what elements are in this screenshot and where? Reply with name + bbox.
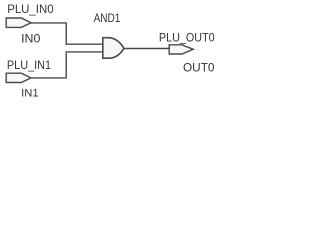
svg-text:PLU_OUT0: PLU_OUT0 bbox=[159, 30, 215, 44]
AND gate AND1 bbox=[103, 38, 124, 59]
input pin PLU_IN0 bbox=[6, 18, 31, 27]
svg-text:IN1: IN1 bbox=[21, 87, 38, 99]
svg-text:AND1: AND1 bbox=[94, 13, 121, 25]
wire from input pin IN0 to AND1 upper input bbox=[30, 23, 103, 44]
svg-text:PLU_IN1: PLU_IN1 bbox=[7, 60, 51, 72]
wire from input pin IN1 to AND1 lower input bbox=[30, 52, 103, 78]
svg-text:IN0: IN0 bbox=[21, 33, 40, 45]
wire from AND1 output to output pin OUT0 bbox=[123, 48, 170, 50]
input pin PLU_IN1 bbox=[6, 73, 31, 82]
svg-text:OUT0: OUT0 bbox=[183, 61, 215, 75]
svg-text:PLU_IN0: PLU_IN0 bbox=[7, 4, 53, 16]
output pin PLU_OUT0 bbox=[169, 45, 193, 54]
